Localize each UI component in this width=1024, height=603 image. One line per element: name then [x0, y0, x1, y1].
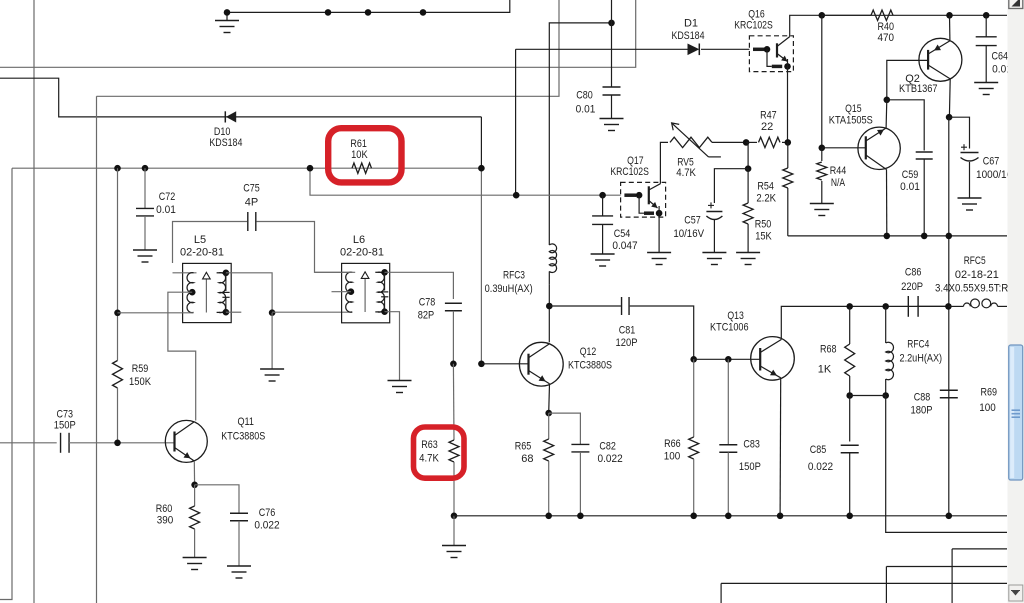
svg-text:R68: R68 — [820, 344, 837, 356]
wire R44/Q15 rail x=821.8 — [821, 15, 823, 148]
wire bottom bus y=515.8 — [454, 515, 1007, 517]
svg-text:C64: C64 — [992, 51, 1009, 63]
svg-text:C78: C78 — [419, 297, 436, 309]
transistor Q2 KTB1367 — [919, 38, 962, 81]
ground Q17 emitter — [647, 252, 671, 254]
svg-text:R61: R61 — [350, 138, 367, 150]
ground bottom bus — [453, 516, 455, 546]
capacitor C64 0.01 — [985, 15, 987, 37]
svg-text:82P: 82P — [418, 310, 435, 322]
ground R60 — [183, 557, 207, 559]
svg-text:KTC1006: KTC1006 — [710, 322, 749, 334]
node Q2 base / Q15 emitter — [884, 97, 891, 104]
node D1 drop — [513, 192, 520, 199]
capacitor C72 0.01 — [144, 168, 146, 208]
wire RF line to C81 — [549, 305, 621, 307]
svg-text:4.7K: 4.7K — [419, 453, 439, 465]
L5 sec bottom wire — [217, 311, 226, 313]
wire Q13 base — [694, 358, 761, 360]
capacitor C81 120P — [621, 297, 623, 315]
inductor RFC3 0.39uH(AX) — [549, 244, 556, 273]
wire lower-right stub 2 — [952, 548, 1007, 550]
transformer L5 02-20-81 — [183, 263, 232, 322]
svg-text:KTC3880S: KTC3880S — [221, 430, 265, 442]
node bus C85 — [846, 513, 853, 520]
wire Q16 emitter down to R47 node — [787, 66, 789, 142]
wire Q2 base — [887, 60, 928, 99]
ground C57 — [702, 252, 726, 254]
svg-text:120P: 120P — [616, 337, 638, 349]
capacitor C86 220P — [907, 296, 909, 317]
node Q12 emitter — [545, 410, 552, 417]
L6 tap stub — [332, 291, 351, 293]
resistor R61 10K — [352, 163, 372, 173]
svg-text:C88: C88 — [914, 392, 931, 404]
svg-text:470: 470 — [878, 32, 895, 44]
node Q12 base branch — [450, 361, 457, 368]
capacitor C88 180P — [940, 389, 958, 391]
node bottom bus R63 — [451, 513, 458, 520]
capacitor C59 0.01 — [916, 151, 933, 153]
node RFC4 bottom — [882, 392, 889, 399]
svg-text:150K: 150K — [129, 376, 152, 388]
capacitor C85 0.022 — [849, 396, 851, 442]
wire RFC3 to Q12 collector node — [548, 284, 550, 342]
svg-text:KDS184: KDS184 — [209, 137, 242, 149]
L5 primary winding — [187, 273, 194, 313]
wire D10 branch down to main node — [480, 117, 482, 168]
wire Q12 emitter — [548, 384, 551, 413]
wire RFC3 feed y=22.9 — [549, 23, 611, 245]
svg-text:3.4X0.55X9.5T:R: 3.4X0.55X9.5T:R — [935, 282, 1008, 294]
svg-text:02-20-81: 02-20-81 — [180, 247, 224, 259]
wire branch to C67 — [949, 117, 969, 148]
capacitor C83 150P — [727, 359, 729, 445]
svg-text:4P: 4P — [245, 197, 258, 209]
svg-text:C82: C82 — [599, 440, 616, 452]
node bus Q15 — [884, 233, 891, 240]
Q16 internal emitter resistor — [767, 49, 772, 66]
node Q16 emitter — [784, 63, 791, 70]
resistor R65 68 — [548, 413, 550, 439]
inductor RFC5 — [948, 305, 963, 307]
svg-text:C86: C86 — [905, 267, 922, 279]
svg-text:10/16V: 10/16V — [673, 228, 704, 240]
capacitor C73 150P — [60, 433, 62, 453]
Q17 base resistor dash — [624, 193, 636, 197]
wire C80 to ground — [611, 95, 613, 118]
svg-text:68: 68 — [521, 453, 533, 465]
svg-text:220P: 220P — [901, 281, 923, 293]
svg-text:390: 390 — [157, 515, 174, 527]
wire C75 net — [173, 222, 248, 264]
svg-text:C81: C81 — [619, 325, 636, 337]
wire C57/R50 node — [747, 142, 749, 168]
ground C76 — [227, 565, 251, 567]
wire lower-right stub 1 — [886, 566, 1007, 568]
transistor Q16 KRC102S dashed box — [749, 36, 793, 72]
highlight box R63 — [414, 427, 465, 478]
capacitor C57 10/16V electrolytic — [708, 204, 714, 206]
svg-text:0.047: 0.047 — [612, 240, 637, 252]
L6 sec top wire — [375, 271, 384, 273]
node Q17 base — [636, 192, 643, 199]
svg-text:R65: R65 — [515, 440, 532, 452]
svg-text:KTC3880S: KTC3880S — [568, 360, 612, 372]
node Q11 base line — [114, 440, 121, 447]
wire junction to L6 primary bottom — [272, 311, 352, 313]
L6 sec bottom wire — [375, 311, 384, 313]
svg-text:L5: L5 — [194, 234, 206, 246]
resistor R40 470 — [822, 14, 871, 16]
svg-text:C57: C57 — [684, 215, 701, 227]
svg-text:RFC4: RFC4 — [907, 339, 929, 351]
wire Q17 base net y=195 — [310, 168, 621, 195]
wire outer box left x=96.5 — [96, 96, 98, 603]
ground C64 — [974, 82, 998, 84]
diode D1 KDS184 — [688, 44, 700, 56]
svg-text:15K: 15K — [755, 231, 772, 243]
svg-text:R63: R63 — [421, 439, 438, 451]
svg-text:0.022: 0.022 — [808, 461, 833, 473]
svg-text:150P: 150P — [54, 420, 76, 432]
node Q11 emitter — [191, 482, 198, 489]
node top rail Q2 — [946, 12, 953, 19]
node Q16 base — [764, 46, 771, 53]
svg-text:KRC102S: KRC102S — [610, 166, 649, 178]
node bus R65 — [545, 513, 552, 520]
node L5 sec bottom — [223, 309, 230, 316]
svg-text:R50: R50 — [755, 219, 772, 231]
transistor Q17 KRC102S dashed box — [621, 182, 666, 217]
wire Q2 emitter from rail — [949, 15, 951, 40]
svg-text:Q13: Q13 — [727, 310, 744, 322]
svg-text:R66: R66 — [664, 438, 681, 450]
transistor Q15 KTA1505S — [858, 127, 900, 169]
node bus R66 — [690, 513, 697, 520]
svg-text:4.7K: 4.7K — [676, 167, 696, 179]
ground L5/L6 junction — [271, 313, 273, 369]
wire main horizontal net y=168 — [12, 167, 481, 169]
L5 internal capacitor — [225, 273, 227, 291]
svg-text:22: 22 — [761, 121, 773, 133]
node Q12 collector — [546, 303, 553, 310]
wire supply bus y=235.9 — [788, 235, 1007, 237]
wire Q15 base — [822, 147, 866, 149]
L5 sec bottom stub — [226, 311, 241, 313]
node L6 sec bottom — [381, 308, 388, 315]
transistor Q11 KTC3880S — [165, 420, 207, 462]
node bus C82 — [577, 513, 584, 520]
resistor R50 15K — [747, 169, 749, 203]
svg-text:0.01: 0.01 — [576, 104, 596, 116]
ground C67 — [958, 197, 982, 199]
svg-text:C85: C85 — [810, 444, 827, 456]
node R66 — [690, 356, 697, 363]
scrollbar up button (cut off) — [1009, 0, 1023, 9]
svg-text:R69: R69 — [981, 386, 998, 398]
capacitor C82 0.022 — [571, 443, 589, 445]
resistor R47 22 — [759, 137, 781, 147]
svg-text:1000/16: 1000/16 — [976, 169, 1012, 181]
node Q15 base — [819, 145, 826, 152]
wire vertical rail x=34 — [33, 0, 35, 603]
resistor R63 4.7K — [452, 364, 455, 440]
highlight box R61 — [328, 128, 401, 182]
scrollbar track — [1008, 0, 1024, 603]
node bus Q13e — [777, 513, 784, 520]
node top bus 1 — [224, 9, 231, 16]
node C86/RFC5 — [945, 303, 952, 310]
node top bus 4 — [420, 9, 427, 16]
node RV5/R47 — [743, 139, 750, 146]
svg-text:D1: D1 — [684, 18, 698, 30]
ground C54 — [591, 253, 615, 255]
ground R44 — [810, 203, 834, 205]
svg-text:RFC3: RFC3 — [503, 270, 525, 282]
resistor R68 1K — [849, 306, 851, 344]
wire C75 to L6 — [257, 222, 351, 273]
svg-text:C72: C72 — [159, 191, 176, 203]
wire C59 to bus — [923, 159, 925, 236]
node L5 primary bottom — [114, 310, 121, 317]
wire D10 net from left edge — [0, 78, 481, 117]
wire Q17 collector up to RV5 row — [660, 142, 668, 183]
capacitor C76 0.022 — [230, 512, 248, 514]
ground C80 — [600, 118, 624, 120]
svg-text:C80: C80 — [576, 90, 593, 102]
wire Q15 emitter up to node — [885, 100, 888, 128]
capacitor C78 82P — [445, 302, 462, 304]
wire L6 sec top to C78 — [385, 272, 454, 299]
wire lower-right stub 3 — [721, 582, 1007, 584]
wire Q11 emitter — [193, 461, 195, 485]
wire L6 sec bottom to ground — [385, 312, 400, 381]
node main R59 — [114, 165, 121, 172]
node main Q17drop — [307, 165, 314, 172]
capacitor C75 4P — [247, 212, 249, 231]
svg-text:C67: C67 — [983, 156, 1000, 168]
svg-text:R60: R60 — [156, 503, 173, 515]
svg-text:100: 100 — [664, 450, 681, 462]
capacitor C54 0.047 — [602, 195, 604, 216]
wire to C57 — [714, 169, 748, 203]
svg-text:C59: C59 — [902, 169, 919, 181]
svg-text:0.022: 0.022 — [598, 453, 623, 465]
L6 primary winding — [346, 272, 353, 312]
scrollbar thumb — [1009, 345, 1023, 480]
wire to C82 — [549, 413, 581, 444]
L6 internal capacitor — [384, 272, 386, 290]
resistor R54 2.2K — [787, 142, 789, 168]
svg-text:KTB1367: KTB1367 — [899, 83, 938, 95]
wire Q2 collector down — [948, 79, 951, 117]
transformer L6 02-20-81 — [342, 263, 390, 322]
ground R50 — [736, 252, 760, 254]
svg-text:180P: 180P — [911, 405, 933, 417]
wire L5 primary bottom — [118, 312, 194, 314]
node Q2 collector branch — [946, 114, 953, 121]
node C57 branch — [745, 165, 752, 172]
resistor R59 150K — [113, 361, 123, 389]
L5 sec top wire to ground node — [226, 273, 272, 313]
wire collector to bus and below — [948, 117, 950, 516]
wire Q13 collector to RF line — [781, 306, 948, 339]
ground C72 — [133, 249, 157, 251]
svg-text:2.2K: 2.2K — [756, 193, 776, 205]
svg-text:Q11: Q11 — [237, 416, 254, 428]
svg-text:R59: R59 — [132, 363, 149, 375]
wire Q17 emitter to ground — [658, 213, 660, 252]
node bus Q2 — [946, 233, 953, 240]
capacitor C67 1000/16 electrolytic — [961, 152, 979, 154]
node L5/L6 ground junction — [269, 309, 276, 316]
wire R59 rail x=117.5 — [117, 168, 119, 360]
wire C73 to Q11 base — [69, 442, 175, 444]
resistor R66 100 — [693, 359, 695, 437]
svg-text:L6: L6 — [353, 234, 365, 246]
node top rail C64 — [983, 12, 990, 19]
svg-text:RFC5: RFC5 — [964, 255, 986, 267]
ground top bus — [226, 12, 228, 20]
svg-text:0.39uH(AX): 0.39uH(AX) — [485, 283, 533, 295]
svg-text:C76: C76 — [259, 507, 276, 519]
capacitor C80 0.01 — [603, 86, 621, 88]
svg-text:100: 100 — [979, 402, 996, 414]
wire horizontal y=67 to corner x=636 — [0, 0, 636, 67]
L6 primary top entry — [315, 271, 356, 273]
wire C78 to Q12 base node — [452, 311, 454, 364]
svg-text:R47: R47 — [760, 110, 777, 122]
wire C80 drop x=611.5 — [611, 0, 613, 87]
svg-text:C54: C54 — [614, 228, 631, 240]
wire C73 input line — [0, 442, 57, 444]
Q17 internal emitter resistor — [639, 195, 644, 213]
wire top bus y=12.4 — [227, 0, 510, 12]
node main C72 — [142, 165, 149, 172]
L6 arrow — [364, 278, 366, 312]
node C83 — [725, 356, 732, 363]
svg-text:0.01: 0.01 — [156, 204, 176, 216]
resistor R60 390 — [194, 485, 196, 506]
node top rail Q16 — [819, 12, 826, 19]
L5 arrow — [205, 279, 207, 313]
node bus C59 — [921, 233, 928, 240]
node bus C83 — [725, 513, 732, 520]
node R47/R54 — [785, 139, 792, 146]
transistor Q12 KTC3880S — [519, 342, 563, 386]
L5 tap wire to Q11 collector — [168, 292, 196, 420]
wire Q15 collector to bus — [886, 170, 888, 236]
L5 sec top wire — [217, 272, 226, 274]
wire to C76 — [195, 485, 239, 514]
node R68 top — [846, 303, 853, 310]
wire D1 net y=49.3 with drop at x=515.6 — [515, 49, 517, 195]
wire C86 right to node — [917, 305, 948, 307]
scrollbar down button — [1009, 585, 1023, 601]
Q16 base resistor dash — [753, 48, 765, 52]
svg-text:KTA1505S: KTA1505S — [829, 115, 873, 127]
wire RFC4 node down to right edge — [886, 396, 1007, 533]
wire R68-RFC4 bottom link — [850, 395, 886, 397]
svg-text:C83: C83 — [743, 439, 760, 451]
svg-text:150P: 150P — [739, 461, 761, 473]
svg-text:KDS184: KDS184 — [672, 30, 705, 42]
node L5 tap — [189, 289, 196, 296]
svg-text:0.01: 0.01 — [900, 181, 920, 193]
L6 secondary winding — [378, 272, 385, 312]
svg-text:R44: R44 — [830, 165, 847, 177]
node L6 tap — [348, 288, 355, 295]
svg-text:Q12: Q12 — [580, 346, 597, 358]
node top bus 2 — [325, 9, 332, 16]
svg-text:1K: 1K — [818, 364, 832, 376]
wire node to C59 — [887, 100, 924, 151]
node L5 sec top — [223, 270, 230, 277]
node Q17 emitter — [656, 210, 663, 217]
wire outer box top y=96 to corner x=559 up — [97, 0, 560, 96]
svg-text:C75: C75 — [243, 183, 260, 195]
wire Q16 collector up to top rail — [790, 15, 1007, 36]
svg-text:02-18-21: 02-18-21 — [955, 269, 999, 281]
L5 primary top wire — [173, 272, 197, 274]
Q16 body — [776, 43, 778, 57]
svg-text:10K: 10K — [351, 149, 368, 161]
node C54 — [599, 192, 606, 199]
L5 secondary winding — [219, 273, 226, 313]
node main D10 — [478, 165, 485, 172]
svg-text:KRC102S: KRC102S — [734, 20, 773, 32]
svg-text:0.022: 0.022 — [254, 520, 279, 532]
node bus C88 — [946, 513, 953, 520]
resistor R44 N/A — [821, 148, 823, 161]
node top bus 3 — [365, 9, 372, 16]
node R68 bottom — [846, 392, 853, 399]
diode D10 KDS184 — [226, 111, 236, 122]
svg-text:R54: R54 — [757, 181, 774, 193]
svg-text:Q15: Q15 — [845, 103, 862, 115]
transistor Q13 KTC1006 — [751, 337, 795, 381]
wire branch x=481 down to Q12 base node — [480, 168, 482, 364]
Q17 body — [648, 186, 650, 204]
wire left return x=12 down and out — [0, 168, 12, 599]
node C80 top — [608, 20, 615, 27]
svg-text:02-20-81: 02-20-81 — [340, 247, 384, 259]
wire Q13 emitter to bottom bus — [779, 378, 782, 516]
ground L6 secondary — [388, 380, 412, 382]
node Q12 base branch2 — [478, 361, 485, 368]
svg-text:2.2uH(AX): 2.2uH(AX) — [900, 353, 943, 365]
node L6 sec top — [381, 269, 388, 276]
svg-text:N/A: N/A — [831, 177, 846, 189]
potentiometer RV5 4.7K — [670, 137, 712, 147]
inductor RFC4 2.2uH(AX) — [885, 306, 887, 343]
wire C81 to Q13 base corner — [630, 306, 694, 359]
node RFC4 top — [882, 303, 889, 310]
